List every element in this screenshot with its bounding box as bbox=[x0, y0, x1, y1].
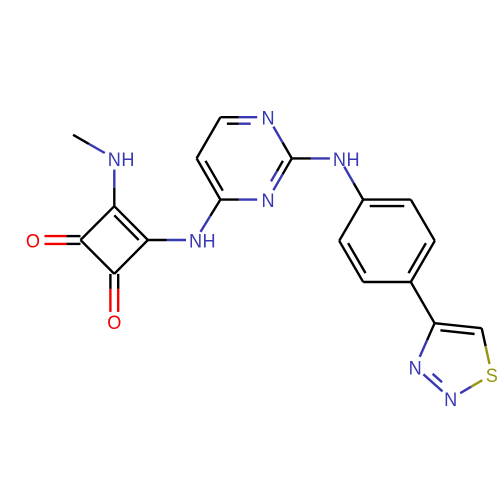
double bond C2p=N3p bbox=[283, 158, 292, 174]
bond C5p-C6p bbox=[197, 117, 221, 158]
svg-text:S: S bbox=[486, 364, 498, 386]
svg-text:N: N bbox=[189, 230, 202, 252]
double bond C4p=C5p bbox=[197, 158, 221, 199]
bond Ar6-Ar1 bbox=[339, 200, 363, 241]
bond Nc-Ar1 bbox=[344, 167, 354, 184]
bond Nb-C4p bbox=[201, 216, 211, 232]
double bond N3t=N2t bbox=[423, 374, 442, 391]
bond N2t-S1t bbox=[460, 387, 471, 394]
bond C2p-Nc bbox=[292, 157, 311, 159]
bond Ar2-Ar3 bbox=[411, 200, 435, 241]
double bond Ar3=Ar4 bbox=[411, 241, 435, 282]
svg-text:N: N bbox=[444, 388, 457, 410]
bond N3p-C4p bbox=[239, 198, 257, 200]
bond C1-C4 bbox=[114, 240, 148, 274]
double bond C3=C4 bbox=[114, 206, 148, 240]
bond N1p-C2p bbox=[273, 127, 282, 143]
svg-text:O: O bbox=[26, 230, 40, 252]
double bond Ar1=Ar2 bbox=[363, 198, 411, 200]
double bond Ar5=Ar6 bbox=[339, 241, 363, 282]
bond C4-Nb bbox=[148, 239, 167, 241]
svg-text:N: N bbox=[333, 148, 346, 170]
svg-text:H: H bbox=[346, 148, 359, 170]
bond C3-C2 bbox=[81, 206, 115, 240]
bond Ar4-Ar5 bbox=[363, 281, 411, 283]
svg-text:H: H bbox=[121, 148, 134, 170]
bond C2-C1 bbox=[81, 240, 115, 274]
double bond C6p=N1p bbox=[220, 116, 238, 118]
bond C4t-N3t bbox=[427, 323, 435, 340]
svg-text:N: N bbox=[261, 107, 274, 129]
svg-text:O: O bbox=[107, 311, 121, 333]
double bond C5t=C4t bbox=[435, 323, 482, 328]
bond CH3a-Na bbox=[73, 135, 89, 144]
double bond C2=O2 bbox=[67, 235, 81, 237]
svg-text:N: N bbox=[108, 148, 121, 170]
bond S1t-C5t bbox=[486, 346, 490, 364]
double bond C1=O1 bbox=[109, 274, 111, 289]
svg-text:N: N bbox=[409, 357, 422, 379]
svg-text:H: H bbox=[203, 230, 216, 252]
bond Ar4-C4t bbox=[411, 282, 435, 323]
svg-text:N: N bbox=[261, 189, 274, 211]
bond Na-C3 bbox=[113, 170, 115, 188]
